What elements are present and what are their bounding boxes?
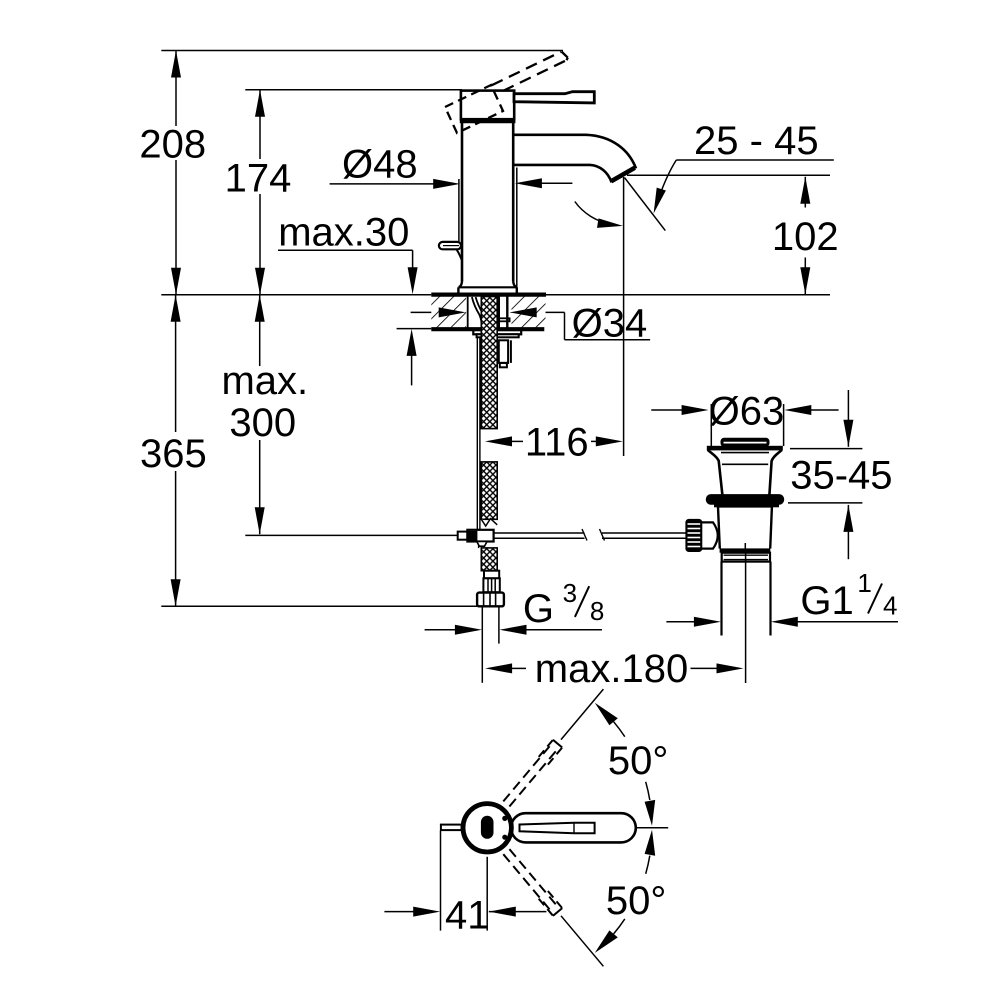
svg-text:174: 174 — [225, 156, 292, 200]
svg-text:41: 41 — [445, 893, 490, 937]
svg-text:G1: G1 — [800, 579, 853, 623]
svg-text:208: 208 — [139, 122, 206, 166]
svg-text:G: G — [523, 587, 554, 631]
svg-text:1: 1 — [857, 568, 871, 598]
svg-text:50°: 50° — [608, 739, 669, 783]
svg-text:8: 8 — [590, 596, 604, 626]
svg-text:max.180: max.180 — [535, 647, 688, 691]
svg-text:365: 365 — [140, 432, 207, 476]
svg-text:25 - 45: 25 - 45 — [694, 119, 819, 163]
svg-text:4: 4 — [883, 591, 897, 621]
svg-text:max.: max. — [221, 359, 308, 403]
svg-text:Ø63: Ø63 — [709, 390, 785, 434]
svg-text:102: 102 — [772, 215, 839, 259]
svg-text:35-45: 35-45 — [790, 454, 892, 498]
svg-text:3: 3 — [563, 578, 577, 608]
svg-text:max.30: max.30 — [278, 210, 409, 254]
svg-text:50°: 50° — [606, 879, 667, 923]
svg-text:300: 300 — [229, 401, 296, 445]
svg-text:Ø34: Ø34 — [572, 301, 648, 345]
svg-text:Ø48: Ø48 — [342, 143, 418, 187]
svg-text:116: 116 — [525, 420, 589, 464]
